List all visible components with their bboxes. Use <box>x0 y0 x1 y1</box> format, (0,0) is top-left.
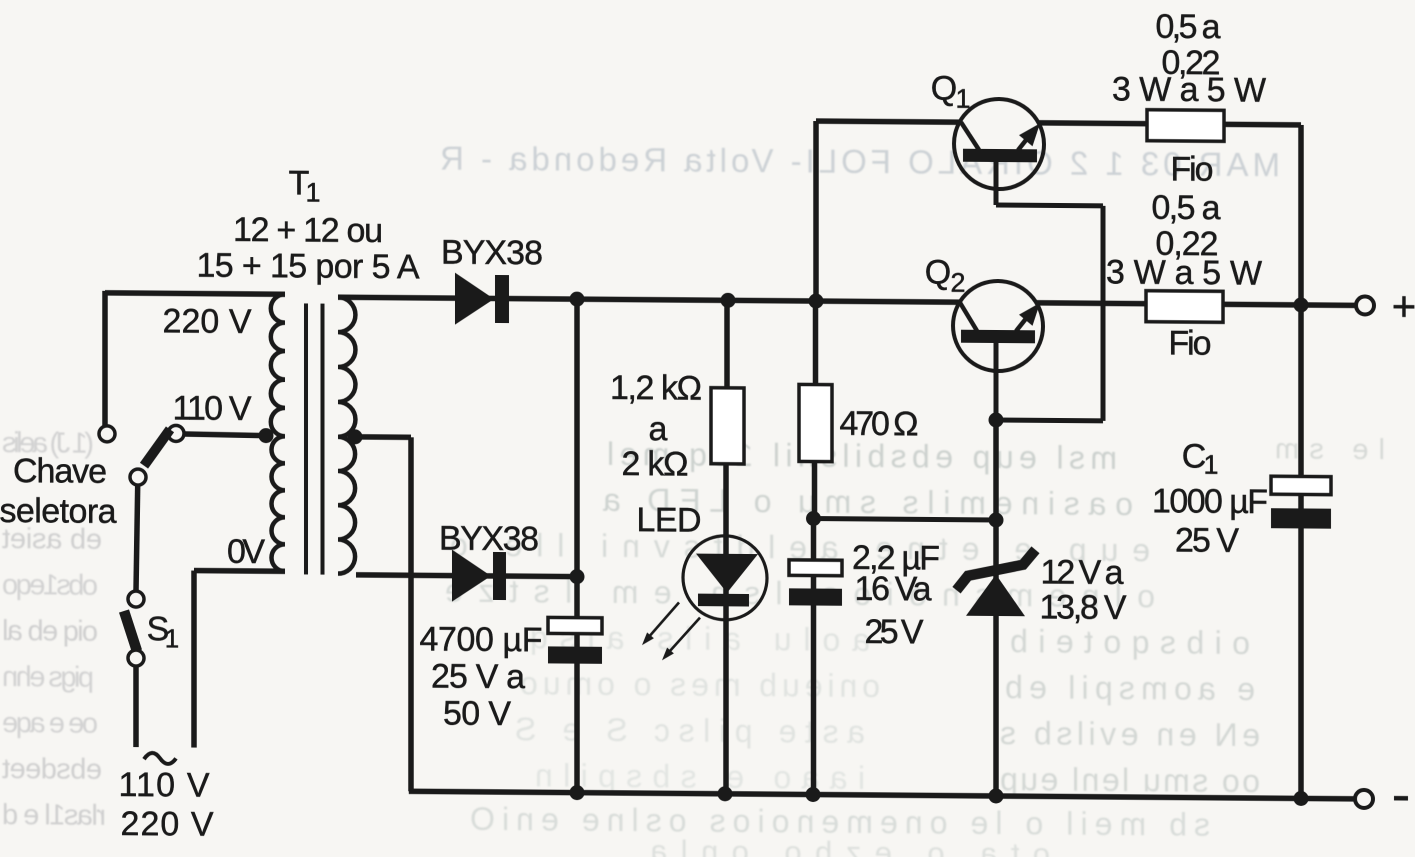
resistor fio 1 <box>1147 110 1224 142</box>
svg-text:1,2 kΩ: 1,2 kΩ <box>610 369 702 408</box>
node diode2 output junction <box>570 569 585 584</box>
svg-text:rlas1l e d: rlas1l e d <box>2 799 106 832</box>
svg-text:50 V: 50 V <box>443 695 511 734</box>
LED circle <box>683 535 767 620</box>
transistor Q1 base bar <box>963 149 1037 163</box>
wire S1 down to AC input <box>133 666 139 747</box>
transistor Q1 circle <box>954 99 1044 190</box>
transistor Q2 base lead <box>960 303 977 331</box>
wire center tap to right <box>355 434 411 440</box>
transistor Q1 collector lead <box>994 162 999 205</box>
wire bottom rail <box>409 791 1356 799</box>
wire fio1 to corner <box>1224 122 1301 128</box>
node selector pole <box>130 469 146 485</box>
wire rectifier node down <box>574 299 580 618</box>
node secondary center tap <box>348 429 363 444</box>
zener diode triangle <box>966 574 1025 616</box>
node selector contact 110V <box>168 425 184 441</box>
wire left down to selector <box>102 291 108 426</box>
resistor 470 <box>799 384 832 461</box>
svg-text:Chave: Chave <box>13 452 107 491</box>
capacitor C1 plates <box>1271 476 1331 494</box>
svg-text:12 V a: 12 V a <box>1041 553 1124 592</box>
svg-text:BYX38: BYX38 <box>439 520 539 559</box>
switch S1 <box>128 591 144 607</box>
node 2,2uF junction <box>806 511 821 526</box>
wire cap to bottom rail <box>574 634 580 793</box>
svg-text:MAR 03 1 2 OIRALO FOLI- Volta: MAR 03 1 2 OIRALO FOLI- Volta Redonda - … <box>440 140 1280 184</box>
svg-text:15 + 15 por 5 A: 15 + 15 por 5 A <box>196 247 419 287</box>
svg-text:oe e aqe: oe e aqe <box>2 707 98 740</box>
svg-text:1: 1 <box>955 84 970 114</box>
svg-text:0,5 a: 0,5 a <box>1156 8 1221 47</box>
svg-text:pigs ehn: pigs ehn <box>2 661 94 694</box>
svg-text:0,5 a: 0,5 a <box>1152 189 1221 228</box>
wire 0V tap <box>194 568 285 574</box>
node zener top junction <box>989 512 1004 527</box>
wire secondary bottom to diode 2 <box>356 575 577 577</box>
wire 110V tap <box>184 434 266 436</box>
svg-text:+: + <box>1392 282 1415 329</box>
transformer T1 primary winding <box>271 294 285 571</box>
resistor 1,2k-2k <box>711 388 744 464</box>
node bottom rail x577 <box>570 785 585 800</box>
resistor fio 2 <box>1146 291 1223 323</box>
node selector contact top <box>99 426 115 442</box>
wire mid rail (B+) <box>338 297 960 302</box>
diode BYX38 D1 <box>455 273 494 325</box>
wire top line Q1 to R fio1 <box>1039 120 1148 126</box>
svg-text:13,8 V: 13,8 V <box>1040 588 1127 627</box>
node mid rail x728 <box>721 293 736 308</box>
svg-text:470 Ω: 470 Ω <box>840 405 919 444</box>
LED light arrow 2 <box>666 617 700 655</box>
svg-text:seletora: seletora <box>0 492 117 531</box>
node + rail x1301 <box>1294 297 1309 312</box>
node bottom rail x726 <box>718 786 733 801</box>
wire C1 branch <box>1298 305 1304 477</box>
svg-text:12 + 12 ou: 12 + 12 ou <box>233 211 383 250</box>
svg-text:Fio: Fio <box>1171 150 1214 188</box>
svg-text:25 V a: 25 V a <box>431 657 525 696</box>
transistor Q1 emitter arrow <box>1018 131 1033 150</box>
svg-text:1000 µF: 1000 µF <box>1152 482 1268 521</box>
svg-text:1: 1 <box>305 177 320 207</box>
switch chave seletora arm <box>144 429 170 466</box>
svg-text:Fio: Fio <box>1169 324 1212 362</box>
terminal + <box>1356 296 1374 314</box>
svg-text:3 W a 5 W: 3 W a 5 W <box>1106 253 1262 292</box>
node bottom rail x1301 <box>1294 791 1309 806</box>
LED light arrow 1 <box>646 602 679 640</box>
svg-text:1: 1 <box>1203 450 1218 480</box>
wire corner down to + rail <box>1298 125 1304 305</box>
svg-text:110 V: 110 V <box>173 389 252 428</box>
svg-text:BYX38: BYX38 <box>441 234 543 273</box>
wire down through 2,2uF <box>811 519 817 561</box>
svg-text:110 V: 110 V <box>119 766 210 805</box>
wire zener to bottom rail <box>993 614 999 796</box>
terminal - <box>1355 790 1373 808</box>
svg-text:16 Va: 16 Va <box>855 570 932 609</box>
wire top line to Q1 <box>816 121 960 122</box>
transistor Q2 collector lead <box>994 343 999 420</box>
svg-text:25 V: 25 V <box>865 613 924 651</box>
node bottom rail x813 <box>806 787 821 802</box>
svg-text:220 V: 220 V <box>163 302 252 341</box>
svg-text:220 V: 220 V <box>121 805 214 844</box>
transistor Q2 emitter arrow <box>1016 312 1031 331</box>
svg-text:2 kΩ: 2 kΩ <box>622 445 689 484</box>
wire down to R LED <box>724 300 730 389</box>
node bottom rail x996 <box>989 788 1004 803</box>
svg-text:obs1eqo: obs1eqo <box>2 569 98 602</box>
LED triangle <box>696 554 758 593</box>
transistor Q2 base bar <box>961 330 1035 344</box>
wire resistor to LED <box>723 464 729 794</box>
svg-text:3 W a 5 W: 3 W a 5 W <box>1112 70 1266 109</box>
wire zener branch <box>993 420 999 580</box>
svg-text:4700 µF: 4700 µF <box>420 620 543 659</box>
LED cathode bar <box>698 594 749 607</box>
svg-text:a: a <box>649 410 668 448</box>
wire center tap down <box>408 437 414 791</box>
svg-text:Q: Q <box>931 69 957 107</box>
node Q2 collector junction <box>989 412 1004 427</box>
transformer T1 core <box>304 303 308 574</box>
label ~ <box>144 753 176 764</box>
wire 0V down to AC input <box>191 571 197 748</box>
node mid rail x577 <box>570 292 585 307</box>
svg-text:2: 2 <box>950 268 965 298</box>
svg-text:0 V: 0 V <box>227 533 265 571</box>
wire down to 470 <box>813 301 819 387</box>
wire pole to S1 <box>136 485 138 591</box>
svg-text:ebsdeet: ebsdeet <box>2 753 102 786</box>
wire Q1 collector to link <box>996 202 1103 208</box>
wire primary top 220V <box>105 293 285 294</box>
node mid rail x816 <box>809 293 824 308</box>
wire link to zener <box>814 519 997 520</box>
wire 470 down <box>812 462 818 520</box>
svg-text:ota o ezbo onla: ota o ezbo onla <box>649 833 1050 857</box>
svg-text:oiq eb al: oiq eb al <box>2 615 98 648</box>
node 110V tap junction <box>259 428 274 443</box>
capacitor 4700uF plates <box>548 617 602 633</box>
transformer T1 secondary winding <box>338 297 355 574</box>
svg-text:1: 1 <box>165 623 179 653</box>
transistor Q2 circle <box>953 281 1043 372</box>
svg-text:25 V: 25 V <box>1175 521 1239 560</box>
svg-text:eN en evilsb s: eN en evilsb s <box>1000 715 1260 753</box>
svg-text:Q: Q <box>925 253 951 291</box>
wire base line up <box>813 121 819 301</box>
diode BYX38 D2 <box>452 550 491 602</box>
capacitor 2,2uF plates <box>789 560 842 576</box>
zener diode bar <box>957 549 1036 591</box>
svg-text:LED: LED <box>637 501 702 540</box>
transistor Q1 base lead <box>961 122 979 150</box>
